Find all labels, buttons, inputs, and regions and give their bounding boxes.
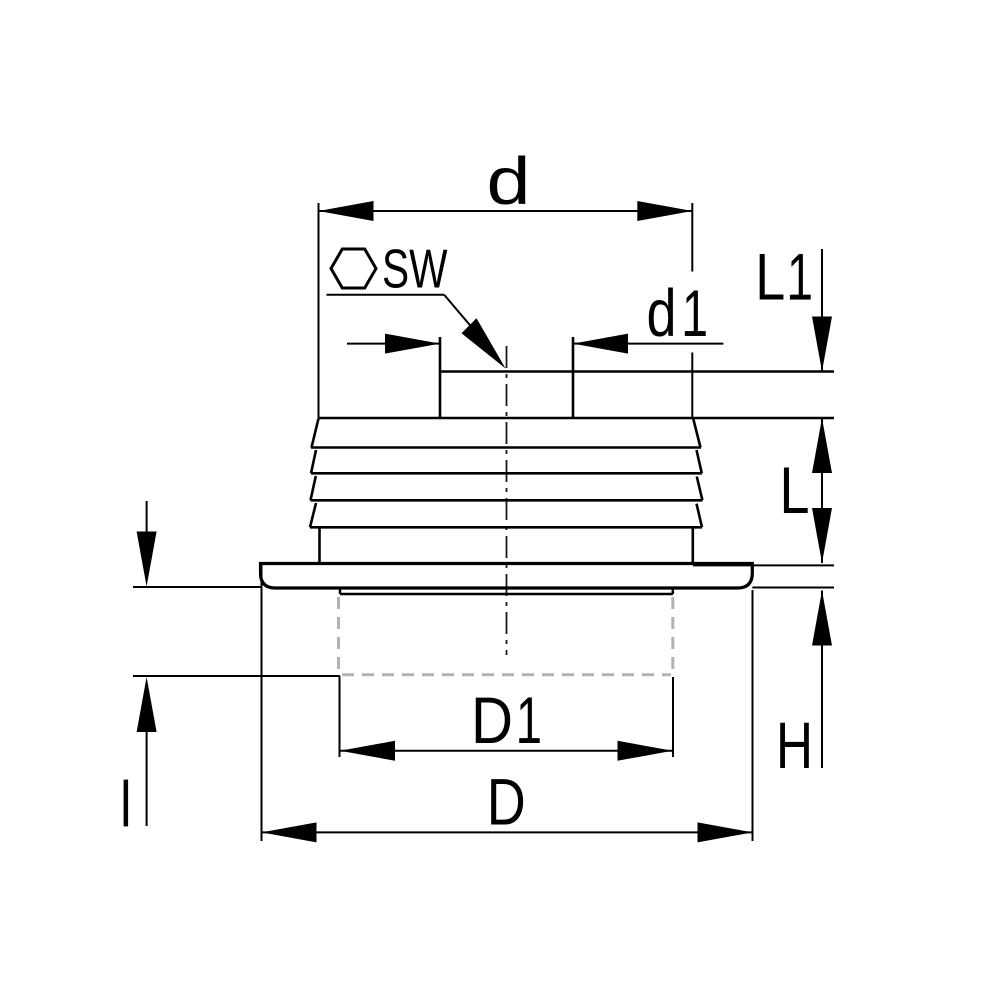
extension line flange bottom right [752,587,834,589]
hidden boss bottom edge (dashed) [342,673,671,676]
dimension l: up arrow [137,677,157,732]
svg-text:1: 1 [682,276,708,350]
dimension L1: down arrow [812,317,832,372]
dimension L: up arrow [812,418,832,473]
thread band 4 [310,503,702,527]
dimension l: extension line upper [133,586,262,588]
svg-text:1: 1 [787,240,813,314]
hidden boss left edge (dashed) [337,597,340,675]
svg-text:H: H [776,708,813,782]
extension line flange top right [693,564,834,566]
dimension H: up arrow [812,591,832,646]
dimension l: lower dim line [146,732,148,826]
thread band 2 [311,450,702,473]
dimension d1: right line [573,343,723,345]
thread top edge [319,417,835,420]
dimension d: left extension line [318,203,320,418]
dimension l: upper dim line [146,501,148,533]
svg-text:d: d [487,144,531,219]
hex socket symbol [331,249,376,288]
dimension D1: right extension line [672,677,674,757]
dimension D: right arrow [698,822,753,842]
dimension D: dim line [262,831,753,833]
dimension L: dim line [821,418,823,563]
SW leader arrowhead [462,318,506,368]
dimension d: right arrow [637,201,692,221]
dimension l: down arrow [137,532,157,587]
svg-text:L: L [780,453,810,527]
thread runout cylinder [320,527,693,563]
dimension D1: left extension line [339,676,341,757]
thread band 1 [311,419,701,448]
dimension D: left extension line [261,564,263,842]
dimension d1: left line [347,343,440,345]
dimension d1: right arrow [573,334,628,354]
dimension d1: left arrow [385,334,440,354]
dimension H: dim line [821,591,823,769]
dimension d: right extension line [691,203,693,272]
dimension D1: left arrow [340,741,395,761]
dimension D1: dim line [340,750,673,752]
dimension l: extension line lower [133,675,340,677]
label l [124,780,129,827]
SW leader underline [327,294,445,296]
hidden boss right edge (dashed) [671,597,674,675]
svg-text:D: D [487,764,526,838]
dimension d: left arrow [319,201,374,221]
dimension d: dim line [319,210,693,212]
svg-text:SW: SW [382,239,448,300]
svg-text:D: D [471,683,513,757]
dimension D1: right arrow [618,741,673,761]
svg-text:L: L [755,240,785,314]
SW leader diagonal [444,295,480,337]
svg-text:1: 1 [516,683,542,757]
dimension L: down arrow [812,508,832,563]
washer under flange [340,588,673,594]
flange outline [261,564,753,589]
thread band 3 [311,476,703,500]
dimension L1: dim line upper [821,249,823,372]
dimension D: left arrow [262,822,317,842]
centerline [506,346,508,655]
dimension D: right extension line [752,590,754,841]
svg-text:d: d [647,276,677,351]
neck outline [440,337,834,418]
